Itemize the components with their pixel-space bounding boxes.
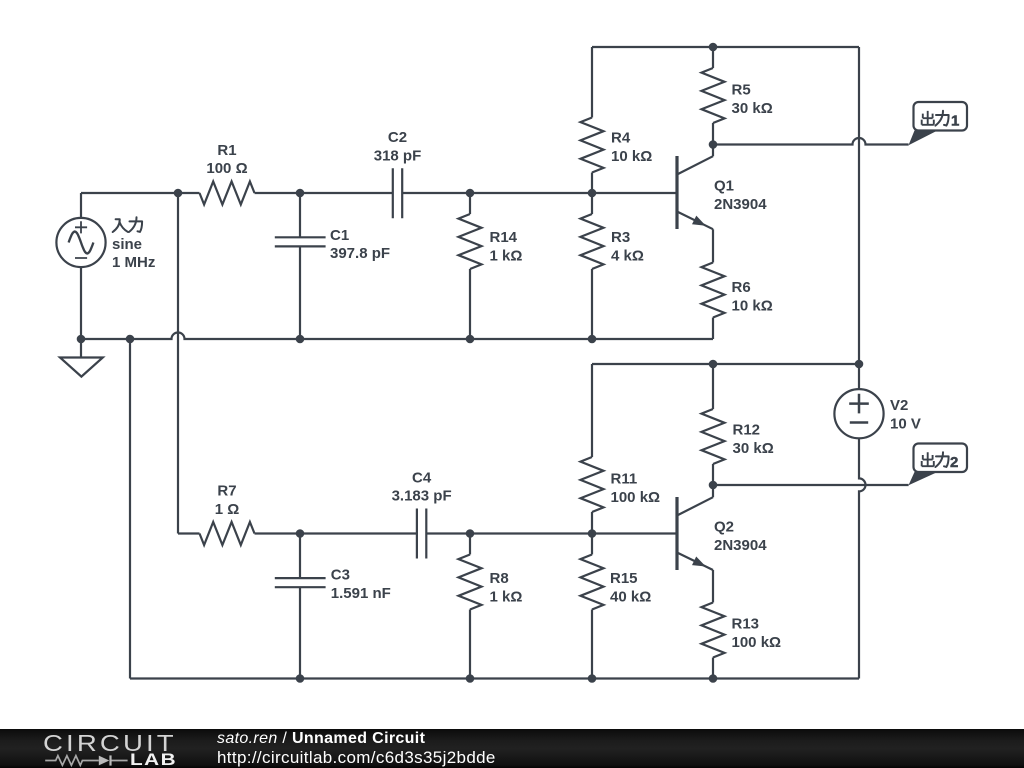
resistor R3 bbox=[581, 193, 604, 339]
wire vertical x=178 from top rail to R7 bbox=[177, 193, 179, 534]
capacitor C1 bbox=[275, 193, 326, 339]
ground bbox=[80, 339, 82, 358]
resistor R4 bbox=[581, 47, 604, 193]
footer url bbox=[217, 748, 496, 768]
resistor R8 bbox=[459, 534, 482, 679]
voltage source VS (input) bbox=[56, 218, 105, 267]
wire top rail y=193 from source to Q1 base bbox=[81, 192, 677, 194]
svg-text:C4: C4 bbox=[412, 469, 432, 486]
svg-text:1 Ω: 1 Ω bbox=[215, 501, 240, 518]
voltage source V2 bbox=[834, 389, 883, 438]
svg-text:R13: R13 bbox=[732, 615, 760, 632]
wire Q2 collector to output2 bbox=[713, 484, 909, 486]
logo doodle resistor+diode bbox=[44, 751, 130, 768]
svg-text:R5: R5 bbox=[732, 82, 751, 99]
svg-text:C3: C3 bbox=[331, 566, 350, 583]
flag output2 出力2 bbox=[909, 472, 938, 485]
label VS input bbox=[113, 219, 128, 232]
svg-text:R1: R1 bbox=[217, 142, 236, 159]
svg-text:V2: V2 bbox=[890, 397, 908, 414]
svg-text:R3: R3 bbox=[611, 229, 630, 246]
transistor Q2 bbox=[675, 497, 678, 570]
resistor R7 bbox=[200, 522, 255, 545]
wire bottom base rail y=533.5 bbox=[178, 532, 677, 534]
svg-text:sine: sine bbox=[112, 236, 142, 253]
svg-text:R12: R12 bbox=[733, 422, 761, 439]
svg-text:R11: R11 bbox=[611, 471, 638, 488]
transistor Q1 bbox=[675, 156, 678, 229]
label flag 出力2 bbox=[922, 452, 934, 466]
svg-text:C1: C1 bbox=[330, 227, 349, 244]
svg-text:R8: R8 bbox=[490, 570, 509, 587]
resistor R1 bbox=[200, 182, 255, 205]
wire ground rail y=339 with hop over x=178 bbox=[81, 333, 713, 340]
svg-text:2N3904: 2N3904 bbox=[714, 196, 767, 213]
svg-text:30 kΩ: 30 kΩ bbox=[732, 100, 773, 117]
svg-text:4 kΩ: 4 kΩ bbox=[611, 248, 644, 265]
wire right rail x=859 with hop over y=485 bbox=[859, 47, 866, 679]
svg-text:1 MHz: 1 MHz bbox=[112, 254, 155, 271]
svg-text:C2: C2 bbox=[388, 129, 407, 146]
svg-text:R14: R14 bbox=[490, 229, 518, 246]
logo CIRCUIT bbox=[43, 730, 177, 757]
svg-text:2N3904: 2N3904 bbox=[714, 537, 767, 554]
svg-text:100 kΩ: 100 kΩ bbox=[732, 634, 782, 651]
wire source top lead bbox=[80, 193, 82, 218]
resistor R11 bbox=[581, 364, 604, 534]
resistor R15 bbox=[581, 534, 604, 679]
footer bar bbox=[0, 729, 1024, 768]
svg-text:1: 1 bbox=[951, 113, 959, 130]
wire vertical x=130 to bottom rail bbox=[129, 339, 131, 679]
resistor R12 bbox=[702, 364, 725, 485]
svg-text:2: 2 bbox=[950, 454, 958, 471]
svg-text:1 kΩ: 1 kΩ bbox=[490, 248, 523, 265]
capacitor C2 bbox=[393, 168, 402, 218]
svg-text:10 V: 10 V bbox=[890, 415, 921, 432]
capacitor C4 bbox=[417, 509, 426, 559]
svg-text:397.8 pF: 397.8 pF bbox=[330, 245, 390, 262]
flag output1 出力1 bbox=[909, 131, 938, 146]
svg-text:10 kΩ: 10 kΩ bbox=[611, 148, 652, 165]
svg-text:1.591 nF: 1.591 nF bbox=[331, 585, 391, 602]
label flag 出力1 bbox=[922, 111, 934, 125]
svg-text:3.183 pF: 3.183 pF bbox=[392, 488, 452, 505]
capacitor C3 bbox=[275, 534, 326, 679]
svg-text:R4: R4 bbox=[611, 129, 631, 146]
wire bottom stage supply rail y=364 bbox=[592, 363, 859, 365]
svg-text:10 kΩ: 10 kΩ bbox=[732, 297, 773, 314]
svg-text:30 kΩ: 30 kΩ bbox=[733, 440, 774, 457]
wire Q1 collector to output1 with hop over x=859 bbox=[713, 138, 909, 145]
logo LAB bbox=[130, 750, 177, 768]
svg-text:Q2: Q2 bbox=[714, 518, 734, 535]
svg-text:40 kΩ: 40 kΩ bbox=[610, 589, 651, 606]
svg-text:318 pF: 318 pF bbox=[374, 147, 422, 164]
svg-text:1 kΩ: 1 kΩ bbox=[490, 589, 523, 606]
svg-text:100 Ω: 100 Ω bbox=[206, 160, 247, 177]
resistor R14 bbox=[459, 193, 482, 339]
svg-text:R7: R7 bbox=[217, 483, 236, 500]
wire source bottom lead bbox=[80, 267, 82, 339]
svg-text:R15: R15 bbox=[610, 570, 638, 587]
svg-text:Q1: Q1 bbox=[714, 177, 734, 194]
resistor R13 bbox=[702, 570, 725, 679]
wire bottom rail y=678.5 bbox=[130, 677, 859, 679]
footer title bbox=[217, 730, 425, 748]
resistor R5 bbox=[702, 47, 725, 145]
svg-text:100 kΩ: 100 kΩ bbox=[611, 489, 661, 506]
resistor R6 bbox=[702, 229, 725, 339]
svg-text:R6: R6 bbox=[732, 279, 751, 296]
wire top supply rail y=47 bbox=[592, 46, 859, 48]
